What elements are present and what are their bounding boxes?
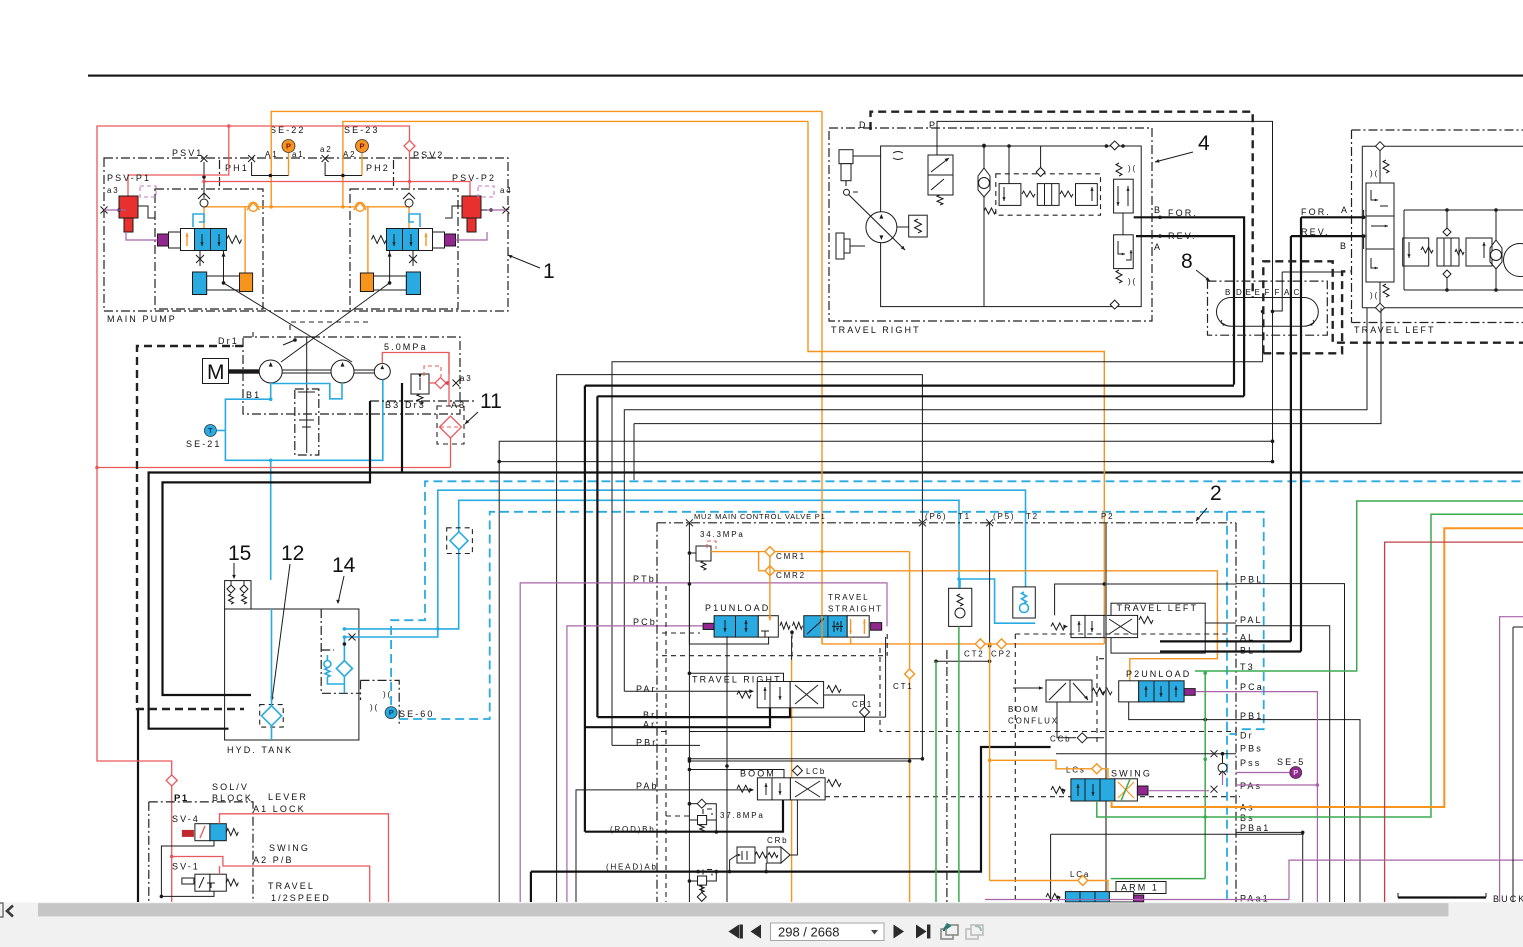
wire spool to servo L xyxy=(223,250,225,283)
wire orange servo feed R xyxy=(367,207,369,275)
svg-text:SV-4: SV-4 xyxy=(172,814,200,824)
svg-text:HYD. TANK: HYD. TANK xyxy=(227,745,293,755)
wire pilot rail P6 xyxy=(689,758,922,760)
servo piston R xyxy=(406,272,420,295)
check CMR1 diamond xyxy=(765,547,775,557)
svg-text:D: D xyxy=(859,120,868,130)
wire red filter to bus xyxy=(450,438,452,468)
main pump enclosure box xyxy=(104,158,508,311)
wire AL thick xyxy=(1160,640,1291,642)
counterbalance column TL xyxy=(1366,183,1394,216)
wire orange arm feed xyxy=(990,880,1077,882)
swivel stadium body xyxy=(1217,298,1319,327)
wire green T2 drain xyxy=(935,661,937,902)
svg-text:P1UNLOAD: P1UNLOAD xyxy=(705,603,770,613)
svg-text:PBL: PBL xyxy=(1240,575,1263,585)
check CP1 diamond xyxy=(860,707,870,717)
svg-text:4: 4 xyxy=(1198,132,1210,155)
wire red PSV supply left xyxy=(97,126,410,468)
drain X symbol L xyxy=(196,255,204,263)
port P6 mark xyxy=(919,519,926,526)
check TL mid xyxy=(1443,228,1451,236)
wire boom top link xyxy=(689,760,909,762)
bundle wire Ar thick xyxy=(585,385,1234,387)
shaft pump1-pump2 xyxy=(282,369,331,371)
pilot pump circle xyxy=(374,364,390,380)
brake valve block right TR xyxy=(1114,235,1134,269)
svg-text:SE-21: SE-21 xyxy=(186,439,222,449)
wire drain dashed thick to tank xyxy=(137,346,244,709)
svg-text:MAIN PUMP: MAIN PUMP xyxy=(107,314,177,324)
svg-text:PTb: PTb xyxy=(633,574,656,584)
svg-text:Br: Br xyxy=(643,710,656,720)
svg-text:Dr1: Dr1 xyxy=(218,336,239,346)
check valve regulator L xyxy=(200,199,208,207)
svg-text:M: M xyxy=(207,361,225,384)
svg-text:a3: a3 xyxy=(460,374,473,383)
wire orange CT2 CP2 line xyxy=(822,643,1104,645)
dashed gallery top xyxy=(662,633,887,656)
bundle wire E-PBr xyxy=(612,362,1263,746)
wire P2unload bottom xyxy=(1129,702,1236,720)
wire cyan tank feed 2 xyxy=(344,500,959,629)
shuttle TR xyxy=(978,168,990,197)
scrollbar thumb xyxy=(38,903,1449,916)
wire red pilot supply xyxy=(382,353,449,375)
port mark PH1 xyxy=(248,155,255,162)
filter 12 blue diamond xyxy=(262,706,282,726)
spool valve right TR xyxy=(1114,179,1134,213)
wire Br travel straight link xyxy=(790,716,886,718)
inner frame bus dots TR xyxy=(1105,144,1109,148)
wire cyan tank feed 1 xyxy=(344,490,1025,637)
port mark tank x xyxy=(349,634,356,641)
svg-text:D: D xyxy=(1236,288,1244,297)
check LCb diamond xyxy=(792,766,802,776)
svg-text:B1: B1 xyxy=(246,390,261,400)
wire return secondary thick xyxy=(163,401,371,695)
regulator right enclosure xyxy=(350,189,458,309)
svg-text:F: F xyxy=(1275,288,1282,297)
check PSV2 red diamond xyxy=(404,141,415,152)
wire red P1 down xyxy=(171,786,173,902)
port mark a3 xyxy=(453,380,460,387)
svg-text:STRAIGHT: STRAIGHT xyxy=(828,605,883,614)
svg-text:P: P xyxy=(389,708,394,717)
link R servo to pump1 xyxy=(281,283,390,362)
svg-text:PSV-P1: PSV-P1 xyxy=(107,173,151,183)
gallery dashed boom xyxy=(657,745,1240,816)
svg-text:SWING: SWING xyxy=(269,843,310,853)
wire red PSV-P1 branch xyxy=(128,126,229,196)
svg-text:2: 2 xyxy=(1210,482,1222,505)
svg-text:a4: a4 xyxy=(500,186,513,195)
regulator left enclosure xyxy=(155,189,263,309)
hydraulic tank body xyxy=(225,609,359,740)
travel left inner frame xyxy=(1362,146,1523,308)
case drain dash-dot xyxy=(370,383,460,401)
filter cyan diamond xyxy=(450,532,468,550)
bypass 14 blue diamond xyxy=(336,661,352,677)
wire orange TS white drop xyxy=(850,637,852,644)
svg-text:T2: T2 xyxy=(1026,512,1039,521)
check valve T1 xyxy=(949,588,972,626)
svg-text:TRAVEL: TRAVEL xyxy=(828,593,869,602)
svg-text:PCa: PCa xyxy=(1240,682,1264,692)
frame bus TL xyxy=(1404,209,1523,211)
breather check symbols xyxy=(227,585,235,593)
relief block TL xyxy=(1403,238,1429,266)
pilot step symbol R xyxy=(409,214,420,227)
wire P1 to unload valve xyxy=(689,584,768,644)
pilot relief dashed red xyxy=(424,366,441,377)
svg-text:CT1: CT1 xyxy=(893,682,914,691)
svg-text:(P5): (P5) xyxy=(993,512,1015,521)
check CT1 diamond xyxy=(905,669,915,679)
svg-text:TRAVEL LEFT: TRAVEL LEFT xyxy=(1354,325,1436,335)
svg-text:PBa1: PBa1 xyxy=(1240,823,1270,833)
wire thick A to AL xyxy=(1300,217,1302,651)
label BUCKET partial xyxy=(1398,896,1486,898)
port P5 mark xyxy=(986,519,993,526)
svg-text:BOOM: BOOM xyxy=(1008,705,1040,714)
sidebar handle xyxy=(0,903,3,917)
wire purple PCb xyxy=(567,626,703,902)
svg-text:1: 1 xyxy=(543,260,555,283)
travel right inner frame xyxy=(881,146,1142,307)
wire PSV1 drop xyxy=(203,162,205,198)
wire PBs xyxy=(1056,753,1236,755)
svg-text:SE-5: SE-5 xyxy=(1277,757,1305,767)
wire P2 supply gray xyxy=(1105,523,1107,902)
wire black pilot PH1 link xyxy=(252,162,289,176)
svg-text:ARM 1: ARM 1 xyxy=(1121,883,1159,893)
wire orange TS drop xyxy=(791,660,793,902)
wire purple far right xyxy=(1500,617,1523,902)
check LCs diamond xyxy=(1092,764,1102,774)
svg-text:)(: )( xyxy=(1370,169,1379,178)
svg-text:PAs: PAs xyxy=(1240,781,1262,791)
svg-text:)(: )( xyxy=(1128,277,1137,286)
svg-text:MU2 MAIN CONTROL VALVE P1: MU2 MAIN CONTROL VALVE P1 xyxy=(694,512,826,521)
svg-text:T: T xyxy=(208,426,213,435)
svg-text:TRAVEL LEFT: TRAVEL LEFT xyxy=(1117,603,1199,613)
wire orange SE-22 drop xyxy=(288,153,290,176)
bypass 14 enclosure xyxy=(321,609,360,693)
svg-text:CMR2: CMR2 xyxy=(776,571,806,580)
check valve T2 cyan xyxy=(1013,587,1036,618)
dashed staircase to travel left 1 xyxy=(1263,261,1523,353)
wire orange A2 pilot xyxy=(343,121,808,206)
svg-text:a2: a2 xyxy=(320,145,333,154)
svg-text:PCb: PCb xyxy=(633,617,657,627)
wire Br into CV xyxy=(597,708,790,717)
wire green arm pilot xyxy=(1111,878,1205,880)
button previous view xyxy=(941,929,953,939)
button last page xyxy=(916,925,927,939)
wire blue into filter 12 xyxy=(271,609,273,706)
svg-text:11: 11 xyxy=(480,390,502,413)
travel motor TL partial xyxy=(1504,244,1523,277)
svg-text:PBs: PBs xyxy=(1240,744,1263,754)
svg-text:P: P xyxy=(359,142,364,151)
orifice orange check L xyxy=(249,202,258,211)
swash links TR xyxy=(836,233,844,259)
svg-text:PAL: PAL xyxy=(1240,615,1263,625)
svg-text:LCb: LCb xyxy=(806,767,826,776)
check diamond TL bottom xyxy=(1376,303,1385,312)
drain dashed Dr1 xyxy=(232,322,370,346)
valve TRAVEL RIGHT section xyxy=(689,673,783,681)
wire HEAD Ab thick xyxy=(531,747,1051,872)
svg-text:Bs: Bs xyxy=(1240,813,1255,823)
wire blue bypass xyxy=(343,637,345,661)
svg-text:a3: a3 xyxy=(107,186,120,195)
valve section TRAVEL LEFT xyxy=(1111,603,1205,653)
svg-text:A1 LOCK: A1 LOCK xyxy=(253,804,306,814)
svg-text:P2UNLOAD: P2UNLOAD xyxy=(1126,669,1191,679)
svg-text:(HEAD)Ab: (HEAD)Ab xyxy=(606,863,658,872)
wire blue pump2 dip xyxy=(272,383,342,399)
arm section frame xyxy=(1051,833,1304,835)
svg-text:BOOM: BOOM xyxy=(740,769,776,779)
filter 11 red diamond xyxy=(440,416,462,438)
svg-text:37.8MPa: 37.8MPa xyxy=(720,811,765,820)
boom second relief xyxy=(698,876,707,885)
wire PBL riser right xyxy=(1236,584,1345,902)
svg-text:CP2: CP2 xyxy=(991,650,1012,659)
link L servo to pump2 xyxy=(224,283,353,362)
svg-text:T1: T1 xyxy=(958,512,971,521)
filter 12 box xyxy=(260,705,284,728)
svg-text:1/2SPEED: 1/2SPEED xyxy=(271,893,331,903)
check diamond TR bottom xyxy=(1110,300,1119,309)
svg-text:CRb: CRb xyxy=(767,836,788,845)
wire crimson bucket line xyxy=(1385,542,1523,902)
wire cyan dashed SE-60 riser xyxy=(391,481,1523,705)
counterbalance pilot dashes TR xyxy=(996,174,1101,215)
svg-text:A: A xyxy=(1341,205,1349,215)
wire return B3 thick xyxy=(401,383,403,473)
svg-text:12: 12 xyxy=(281,542,304,565)
wire orange pilot to CV CMR xyxy=(808,121,1104,644)
button next page xyxy=(894,925,905,939)
wire P5 supply drop xyxy=(989,523,991,662)
wire purple PAs xyxy=(1148,790,1209,792)
svg-text:Dr: Dr xyxy=(1240,731,1254,741)
bundle wire P feed 461 xyxy=(499,461,1272,463)
svg-text:CP1: CP1 xyxy=(852,700,873,709)
swing section dashdot border xyxy=(946,650,948,902)
wire thick B to BL xyxy=(1290,236,1292,641)
wire PBa1 xyxy=(1236,832,1303,902)
brake spring box TR xyxy=(909,215,928,237)
svg-text:15: 15 xyxy=(228,542,251,565)
svg-text:)(: )( xyxy=(1370,291,1379,300)
svg-text:A: A xyxy=(1154,242,1162,252)
bundle wire PBr pilot xyxy=(634,308,1381,424)
wire PAb xyxy=(576,790,753,902)
wire orange CT1 drop xyxy=(909,552,911,902)
wire purple PCa xyxy=(1195,692,1317,902)
svg-text:CMR1: CMR1 xyxy=(776,552,806,561)
valve BOOM xyxy=(689,770,784,778)
svg-text:PAr: PAr xyxy=(636,684,657,694)
wire green swing drain xyxy=(1097,514,1523,817)
wire black pilot PH2 link xyxy=(325,162,362,176)
orange pilot passages TS xyxy=(850,619,852,634)
svg-text:B: B xyxy=(1154,205,1162,215)
svg-text:)(: )( xyxy=(370,703,379,712)
wire cyan dashed drain drop xyxy=(1226,512,1228,902)
svg-text:P: P xyxy=(929,120,937,130)
svg-text:(P6): (P6) xyxy=(925,512,947,521)
button next view disabled xyxy=(966,929,978,939)
wire orange CMR1 xyxy=(711,551,910,553)
svg-text:LCs: LCs xyxy=(1066,766,1086,775)
drain X symbol R xyxy=(409,255,417,263)
svg-text:LEVER: LEVER xyxy=(268,792,308,802)
wire TL valve links xyxy=(1363,210,1365,217)
wire TS drop black xyxy=(791,636,793,660)
travel left enclosure xyxy=(1352,130,1523,323)
wire ROD Bb thick xyxy=(585,800,783,832)
wire travel-left pilot link xyxy=(1273,272,1283,311)
wire red bottom bus xyxy=(97,467,451,469)
purple pilot L xyxy=(126,232,158,240)
wire green T3 inside xyxy=(1204,673,1206,879)
wire purple Pss xyxy=(1236,772,1289,774)
bundle wire pilot feed 441 xyxy=(499,441,1272,902)
port mark PSV1 xyxy=(201,155,208,162)
pump group enclosure xyxy=(243,337,460,414)
svg-text:FOR.: FOR. xyxy=(1301,207,1331,217)
solenoid block enclosure xyxy=(149,802,253,902)
big dashed pilot D loop xyxy=(871,112,1253,297)
pump 2 circle xyxy=(331,360,354,383)
wire blue to tank xyxy=(270,460,272,580)
wire orange spool pilot R xyxy=(408,203,410,229)
orifice orange check R xyxy=(356,202,365,211)
check CMR2 diamond xyxy=(765,566,775,576)
springs between P1UNLOAD and TS xyxy=(780,622,790,629)
main spool regulator R (blue) xyxy=(445,234,456,246)
wire orange servo feed L xyxy=(244,207,246,275)
svg-text:PAa1: PAa1 xyxy=(1240,894,1270,904)
port mark a1-a2 xyxy=(322,155,329,162)
svg-text:P: P xyxy=(286,142,291,151)
button first page xyxy=(729,925,740,939)
page top rule xyxy=(88,75,1523,77)
svg-text:14: 14 xyxy=(332,554,356,577)
svg-text:B: B xyxy=(1225,288,1232,297)
svg-text:F: F xyxy=(1265,288,1272,297)
wire purple PTb xyxy=(520,583,887,902)
wire blue B1 pump circuit xyxy=(225,380,382,461)
wire red pilot rail 182 xyxy=(204,182,470,199)
wire red to filter xyxy=(446,383,449,406)
wire orange main to CMR1 xyxy=(821,111,823,644)
wire cyan T2 stub xyxy=(959,579,1035,623)
svg-text:TRAVEL RIGHT: TRAVEL RIGHT xyxy=(831,325,921,335)
check red diamond P1 xyxy=(166,775,177,786)
wire P1 supply xyxy=(688,523,690,902)
electric motor M xyxy=(203,359,229,384)
wire PBr into CV xyxy=(612,744,700,746)
button previous page xyxy=(751,925,762,939)
svg-text:Pss: Pss xyxy=(1240,758,1261,768)
shuttle TL xyxy=(1490,240,1502,269)
wire conflux drop xyxy=(1057,702,1076,738)
wire spool to servo R xyxy=(389,250,391,283)
svg-text:SWING: SWING xyxy=(1111,769,1152,779)
wire orange As xyxy=(1112,528,1523,807)
wire red PSV2 down to regulators xyxy=(409,151,411,189)
toolbar background xyxy=(0,902,1523,947)
wire Ar into CV xyxy=(585,708,770,727)
svg-text:CT2: CT2 xyxy=(964,650,985,659)
svg-text:5.0MPa: 5.0MPa xyxy=(384,342,428,352)
wire black solenoid drains xyxy=(161,841,214,897)
wire orange swing feed xyxy=(989,644,991,881)
sensor SE-21 xyxy=(204,425,216,437)
wire green T1 drain xyxy=(958,626,960,902)
port P1 mark xyxy=(686,519,693,526)
filter on cyan line box xyxy=(447,528,473,554)
main spool regulator L (blue) xyxy=(158,234,169,246)
wire return main thick upper xyxy=(149,473,1523,729)
svg-text:E: E xyxy=(1255,288,1262,297)
pilot dashed box PSV-P1 xyxy=(140,186,156,197)
dashed staircase to travel left 2 xyxy=(1263,271,1352,353)
wire green T3 xyxy=(1236,501,1523,671)
svg-text:PH2: PH2 xyxy=(366,163,390,173)
shuttle PBs xyxy=(1218,763,1227,772)
wire orange CP1 feed xyxy=(821,616,823,644)
svg-text:SOL/V: SOL/V xyxy=(212,782,249,792)
svg-text:PSV2: PSV2 xyxy=(413,150,444,160)
wire cyan dashed Dr xyxy=(1230,733,1236,735)
bucket section frame right xyxy=(1513,626,1523,628)
svg-text:SV-1: SV-1 xyxy=(172,862,200,872)
wire PAr into valve xyxy=(624,690,750,692)
bundle wire PAr xyxy=(624,308,1367,692)
gear shaft symbol xyxy=(306,337,308,453)
wire orange SE-23 drop xyxy=(361,153,363,176)
check valve regulator R xyxy=(405,199,413,207)
travel motor TR xyxy=(866,212,897,243)
bundle wire P6 xyxy=(557,375,923,902)
svg-text:PBr: PBr xyxy=(636,738,657,748)
servo piston L xyxy=(193,272,207,295)
svg-text:A2 P/B: A2 P/B xyxy=(253,855,294,865)
svg-text:PSV1: PSV1 xyxy=(172,148,203,158)
valve ARM 1 xyxy=(1116,882,1166,894)
wire red SV-4 lever lock xyxy=(220,814,389,902)
svg-text:SE-60: SE-60 xyxy=(399,709,435,719)
check CP2 diamond xyxy=(997,639,1007,649)
wire BL thick xyxy=(1160,650,1301,652)
wire P pilot line xyxy=(937,121,1273,461)
swivel joint enclosure xyxy=(1208,281,1328,335)
wire cyan dashed pilot return xyxy=(399,512,1263,729)
purple pilot R xyxy=(456,232,488,240)
brake release valve TR xyxy=(928,155,953,175)
bypass 14 check valve blue xyxy=(324,661,331,668)
sensor SE-60 enclosure xyxy=(361,680,400,725)
pump 1 circle xyxy=(259,360,282,383)
check diamond TL top xyxy=(1376,142,1385,151)
